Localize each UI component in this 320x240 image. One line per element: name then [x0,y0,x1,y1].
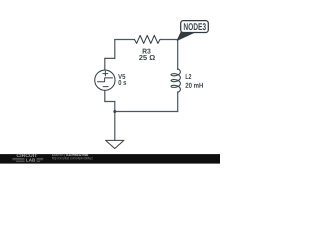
wire right vertical upper [177,40,179,70]
footer logo lines left [12,159,24,162]
wire V5 bottom lead [104,90,106,101]
label V5 [118,74,125,79]
footer logo lines right [37,159,44,162]
wire right vertical lower [177,92,179,112]
wire top horizontal left segment [115,39,135,41]
footer banner [0,154,220,164]
wire top horizontal right segment [160,39,178,41]
label 0 s [118,80,126,85]
wire jog horizontal lower [105,101,115,103]
node flag pointer tail [177,32,194,41]
footer text line 1 title [66,153,88,156]
inductor L2 coil [171,69,180,92]
footer logo LAB [26,159,35,162]
node label text NODE3 [184,23,206,30]
label R3 [143,49,151,54]
footer text line 1 user [52,153,65,156]
wire ground stub [114,112,116,141]
node junction dot [113,110,116,113]
voltage source V5 circle [95,70,115,90]
ground symbol triangle [106,140,124,148]
wire left vertical to bottom node [114,102,116,112]
resistor R3 [135,35,161,43]
node label box NODE3 [181,21,209,33]
V5 minus sign [103,86,108,88]
label 25 ohm [139,55,155,60]
wire top-left vertical [114,40,116,59]
wire bottom horizontal [115,111,178,113]
V5 plus sign [103,71,108,76]
V5 step waveform [98,78,113,82]
footer text line 2 url [52,157,93,160]
footer logo CIRCUIT [17,154,38,157]
label L2 [186,74,192,79]
wire V5 top lead [104,58,106,70]
label 20 mH [186,83,203,88]
wire jog horizontal upper [105,57,115,59]
